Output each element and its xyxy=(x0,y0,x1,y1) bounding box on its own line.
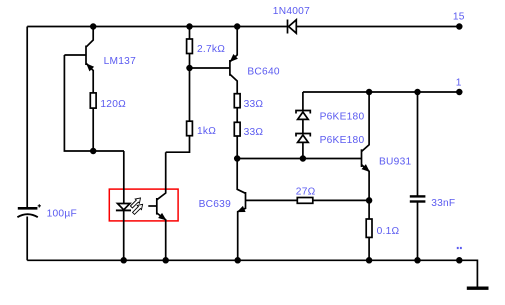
optocoupler box xyxy=(109,189,178,221)
wire top rail left of diode xyxy=(27,26,287,28)
wire 2.7k bottom xyxy=(189,54,191,69)
svg-text:1kΩ: 1kΩ xyxy=(197,126,216,137)
wire top rail right of diode xyxy=(296,26,459,28)
node BU931 collector xyxy=(367,90,372,95)
svg-text:BC639: BC639 xyxy=(199,199,231,210)
node BU931 emitter xyxy=(367,198,372,203)
svg-text:1: 1 xyxy=(456,78,462,89)
ground xyxy=(467,287,489,290)
svg-text:120Ω: 120Ω xyxy=(100,99,126,110)
svg-text:2.7kΩ: 2.7kΩ xyxy=(197,44,225,55)
transistor BC640 xyxy=(230,27,237,94)
wire rail 1 xyxy=(303,91,459,93)
wire bottom rail xyxy=(27,259,459,261)
wire between 33Ω xyxy=(236,108,238,123)
wire left rail lower xyxy=(26,217,28,261)
node BC640 emitter xyxy=(235,24,240,29)
wire P6KE top xyxy=(302,92,304,111)
wire 1k to opto collector xyxy=(166,136,190,153)
resistor 33Ω lower xyxy=(234,122,240,136)
node P6KE bottom xyxy=(301,156,306,161)
node BC640 base xyxy=(187,66,192,71)
svg-text:BC640: BC640 xyxy=(247,67,279,78)
node LED cathode xyxy=(121,258,126,263)
wire 120Ω to node xyxy=(92,108,94,151)
transistor LM137 xyxy=(64,27,93,93)
diode 1N4007 xyxy=(288,20,297,34)
wire 0.1Ω top xyxy=(368,200,370,219)
svg-text:1N4007: 1N4007 xyxy=(273,6,310,17)
capacitor 100µF xyxy=(17,204,41,217)
resistor 33Ω upper xyxy=(234,94,240,108)
transistor opto NPN xyxy=(148,152,165,260)
LED diode xyxy=(116,204,131,211)
wire BC639 base xyxy=(246,199,298,201)
svg-text:33nF: 33nF xyxy=(431,198,455,209)
wire 33nF top xyxy=(417,92,419,196)
wire left rail upper xyxy=(26,27,28,208)
wire BC640 base xyxy=(190,67,230,69)
wire 1k top xyxy=(189,68,191,121)
svg-text:LM137: LM137 xyxy=(104,56,136,67)
node BC639 emitter bottom xyxy=(235,258,240,263)
resistor 120Ω xyxy=(90,93,96,108)
node LM137 collector xyxy=(91,24,96,29)
node 1 xyxy=(457,90,462,95)
wire P6KE to node xyxy=(302,142,304,158)
wire LED cathode xyxy=(123,210,125,260)
diode P6KE180 lower xyxy=(296,134,310,143)
node emitter junction xyxy=(91,149,96,154)
wire 2.7k top xyxy=(189,27,191,40)
transistor BU931 xyxy=(362,92,370,200)
resistor 2.7kΩ xyxy=(187,39,193,54)
node opto emitter xyxy=(163,258,168,263)
capacitor 33nF xyxy=(410,196,426,201)
node 33nF top xyxy=(415,90,420,95)
node 0.1Ω bottom xyxy=(367,258,372,263)
wire 33Ω to node xyxy=(236,136,238,159)
svg-text:0.1Ω: 0.1Ω xyxy=(377,226,400,237)
resistor 1kΩ xyxy=(187,121,193,136)
resistor 0.1Ω xyxy=(366,219,372,237)
wire 33nF bottom xyxy=(417,202,419,261)
diode P6KE180 upper xyxy=(296,111,310,120)
node 33nF bottom xyxy=(415,258,420,263)
wire ground lead xyxy=(459,260,477,287)
node ground terminal xyxy=(457,258,462,263)
svg-text:P6KE180: P6KE180 xyxy=(320,112,365,123)
wire 0.1Ω bottom xyxy=(368,237,370,260)
node 15 xyxy=(457,24,462,29)
LED arrow upper xyxy=(130,198,140,208)
transistor BC639 xyxy=(237,159,245,261)
node drive xyxy=(235,156,240,161)
resistor 27Ω xyxy=(297,198,313,204)
svg-text:BU931: BU931 xyxy=(379,156,411,167)
label .. xyxy=(457,247,462,249)
svg-text:100µF: 100µF xyxy=(47,209,77,220)
wire drive node to BU931 base xyxy=(237,158,361,160)
svg-text:33Ω: 33Ω xyxy=(244,127,264,138)
wire LED anode xyxy=(123,151,125,204)
wire 27Ω to BU931 emitter xyxy=(313,199,369,201)
node 2.7k top xyxy=(187,24,192,29)
wire LM137 base return xyxy=(64,55,124,151)
svg-text:27Ω: 27Ω xyxy=(296,187,316,198)
svg-text:15: 15 xyxy=(453,11,465,22)
wire between P6KE xyxy=(302,119,304,133)
svg-text:P6KE180: P6KE180 xyxy=(320,135,365,146)
svg-text:33Ω: 33Ω xyxy=(244,99,264,110)
LED arrow lower xyxy=(133,204,143,214)
